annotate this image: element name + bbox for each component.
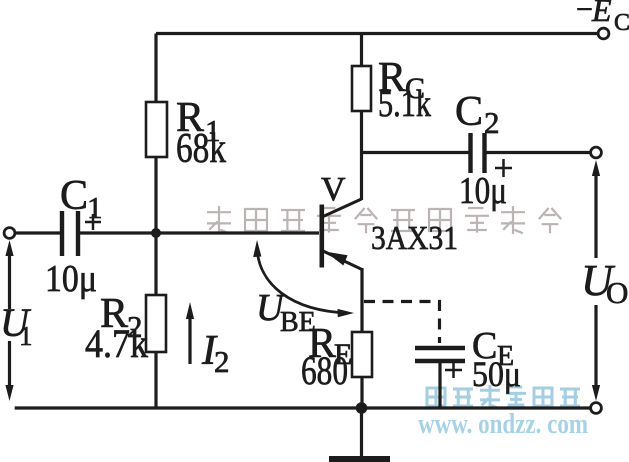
capacitor C1 bbox=[62, 211, 78, 256]
terminal -Ec bbox=[598, 28, 609, 39]
resistor RC bbox=[352, 66, 371, 111]
svg-text:BE: BE bbox=[280, 307, 316, 338]
svg-text:680: 680 bbox=[301, 348, 348, 393]
arrow U1 bottom bbox=[5, 341, 13, 401]
terminal input bbox=[4, 228, 15, 239]
transistor V emitter arrow bbox=[325, 252, 348, 266]
label R2 bbox=[100, 291, 143, 344]
svg-text:4.7k: 4.7k bbox=[85, 321, 148, 366]
svg-text:−: − bbox=[576, 0, 593, 26]
wire left branch top (to R1) bbox=[154, 34, 157, 103]
label U1 bbox=[0, 300, 33, 351]
wire CE to bottom rail bbox=[438, 363, 441, 408]
svg-text:3AX31: 3AX31 bbox=[371, 220, 458, 257]
svg-text:50μ: 50μ bbox=[472, 354, 521, 394]
svg-text:E: E bbox=[591, 0, 612, 28]
arrow UO bottom bbox=[592, 305, 600, 401]
svg-text:www. ondzz. com: www. ondzz. com bbox=[418, 409, 588, 440]
transistor V base bar bbox=[320, 205, 325, 268]
label UO bbox=[581, 256, 628, 310]
svg-text:C: C bbox=[455, 89, 483, 135]
capacitor CE bbox=[415, 348, 465, 361]
label + of C1 bbox=[85, 214, 101, 230]
label C1 bbox=[60, 173, 103, 225]
svg-text:5.1k: 5.1k bbox=[378, 83, 431, 125]
svg-text:1: 1 bbox=[87, 190, 103, 225]
dashed wire to CE bbox=[364, 302, 440, 344]
label RC bbox=[378, 55, 425, 105]
wire collector top bbox=[360, 34, 363, 67]
label I2 bbox=[201, 328, 230, 379]
arrow U1 top bbox=[5, 240, 13, 309]
arrow UO top bbox=[592, 160, 600, 258]
transistor V emitter diagonal bbox=[323, 251, 362, 270]
wire C1 to base bbox=[80, 231, 319, 234]
label + of CE bbox=[445, 362, 462, 378]
arc UBE bbox=[257, 247, 348, 313]
node emitter junction bbox=[356, 402, 368, 414]
terminal output bottom bbox=[591, 403, 602, 414]
label C2 bbox=[455, 89, 500, 140]
resistor R2 bbox=[146, 295, 166, 352]
svg-text:1: 1 bbox=[19, 321, 33, 351]
wire output to C2 bbox=[362, 151, 470, 154]
svg-text:V: V bbox=[321, 171, 346, 208]
arrow I2 bbox=[186, 302, 194, 364]
svg-text:C: C bbox=[614, 10, 629, 36]
label + of C2 bbox=[495, 159, 512, 177]
wire ground stem bbox=[360, 408, 363, 456]
transistor V collector diagonal bbox=[322, 199, 362, 217]
svg-text:10μ: 10μ bbox=[45, 258, 97, 300]
svg-text:10μ: 10μ bbox=[459, 170, 507, 212]
label -Ec bbox=[576, 0, 629, 36]
node base junction bbox=[151, 228, 161, 238]
label R1 bbox=[176, 95, 221, 148]
wire RE to bottom rail bbox=[360, 377, 363, 408]
resistor RE bbox=[352, 332, 372, 377]
wire input to C1 bbox=[15, 231, 61, 234]
wire bottom rail bbox=[15, 406, 591, 409]
svg-text:2: 2 bbox=[214, 344, 230, 379]
label UBE bbox=[256, 287, 316, 338]
arrow UBE right bbox=[338, 309, 355, 317]
svg-text:O: O bbox=[606, 275, 628, 310]
label RE bbox=[308, 321, 352, 371]
wire top -Ec rail bbox=[156, 32, 598, 35]
label CE bbox=[472, 325, 514, 372]
wire R1 to node bbox=[154, 157, 157, 233]
capacitor C2 bbox=[471, 133, 485, 173]
watermark company text bbox=[207, 206, 561, 234]
wire R2 to bottom rail bbox=[154, 352, 157, 408]
watermark site name bbox=[427, 385, 580, 409]
ground bbox=[329, 456, 390, 462]
arrow UBE top bbox=[253, 240, 261, 257]
svg-text:C: C bbox=[60, 173, 88, 219]
terminal output top bbox=[591, 147, 602, 158]
wire node to R2 bbox=[154, 233, 157, 295]
resistor R1 bbox=[146, 102, 167, 157]
svg-text:2: 2 bbox=[484, 105, 500, 140]
wire C2 to output terminal bbox=[487, 151, 592, 154]
svg-text:68k: 68k bbox=[176, 126, 226, 172]
wire emitter to RE bbox=[360, 268, 363, 332]
wire RC to collector bbox=[360, 111, 363, 200]
